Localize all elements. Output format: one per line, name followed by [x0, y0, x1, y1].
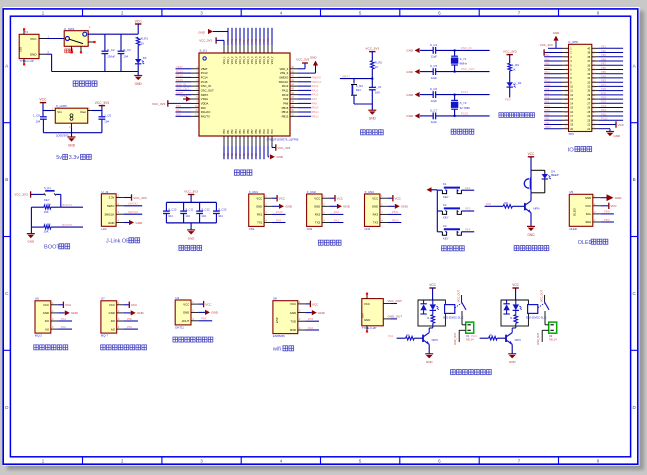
capacitor S_C4: [420, 43, 490, 59]
caption alarm circuit: [514, 246, 549, 251]
resistor (relay 1 series): [427, 310, 434, 326]
capacitor S_C5: [420, 64, 490, 80]
svg-text:PA5: PA5: [545, 91, 550, 95]
svg-text:PC12: PC12: [601, 117, 608, 121]
svg-text:SWDIO: SWDIO: [279, 76, 288, 80]
node PC14: [461, 90, 469, 94]
ground (relay 1): [425, 344, 433, 364]
wire bottom rail + reg GND pin: [43, 123, 102, 133]
svg-text:OLED: OLED: [573, 208, 577, 216]
connector J1 J-Link: [101, 190, 116, 231]
svg-text:NPN: NPN: [432, 338, 438, 342]
capacitor C13 (filter): [213, 202, 227, 223]
svg-text:PE1: PE1: [601, 45, 606, 49]
svg-text:CN2: CN2: [307, 227, 313, 231]
power flag VCC_3V3 (out): [95, 101, 109, 111]
svg-text:dOUT: dOUT: [182, 319, 190, 323]
power flag VCC (relay 2): [512, 283, 519, 300]
ground (crystal row 1): [406, 48, 419, 53]
svg-text:SDA: SDA: [585, 220, 591, 224]
svg-text:PB5: PB5: [243, 129, 246, 134]
svg-text:RX1: RX1: [257, 213, 263, 217]
IO header left pin 9: [544, 79, 572, 85]
svg-text:PB1: PB1: [127, 325, 133, 329]
svg-text:GND: GND: [553, 31, 559, 35]
svg-text:X2: X2: [549, 334, 553, 338]
svg-text:U5: U5: [569, 190, 573, 194]
svg-text:PC4: PC4: [238, 152, 242, 158]
svg-text:VCC: VCC: [43, 303, 49, 307]
transistor Q2 NPN: [506, 326, 521, 344]
svg-text:REL04: REL04: [466, 339, 474, 342]
svg-text:100uF: 100uF: [107, 55, 115, 59]
svg-text:VDDA: VDDA: [201, 102, 209, 106]
relay coil box (K2): [526, 305, 547, 320]
svg-text:PE10: PE10: [266, 37, 270, 44]
svg-text:PD3: PD3: [267, 129, 270, 134]
svg-text:PB4: PB4: [601, 74, 606, 78]
power flag VCC_3V3 (MCU bottom): [272, 144, 291, 150]
svg-text:PB15: PB15: [282, 106, 289, 110]
wifi pin2 GND: [298, 309, 326, 316]
J-Link pin 1 VCC_3V3: [116, 194, 147, 201]
ground (keys): [427, 187, 438, 192]
svg-text:VCC_3V3: VCC_3V3: [133, 196, 147, 200]
svg-text:VCC: VCC: [372, 196, 378, 200]
svg-text:Link: Link: [101, 227, 107, 231]
svg-text:12pF: 12pF: [431, 55, 438, 59]
caption CO detect module: [101, 345, 147, 350]
svg-text:GND: GND: [401, 205, 409, 209]
switch K3 (reset key): [351, 79, 363, 104]
IO header right pin 30: [587, 87, 623, 93]
svg-text:VCC: VCC: [290, 302, 296, 306]
svg-text:GND: GND: [180, 94, 186, 98]
switch K_SW1: [64, 25, 95, 53]
resistor R6 (alarm base): [485, 201, 525, 208]
svg-text:12pF: 12pF: [431, 120, 438, 124]
caption dianyuan dianlu: [73, 81, 97, 86]
IO header left pin 12: [544, 91, 573, 97]
svg-text:VDD_1: VDD_1: [223, 56, 226, 64]
buzzer D4 BEEP frame: [531, 170, 545, 193]
svg-text:VCC_3V3: VCC_3V3: [199, 39, 212, 43]
svg-text:GND: GND: [136, 221, 144, 225]
svg-text:VCC_3V3: VCC_3V3: [277, 146, 290, 150]
svg-text:PB7: PB7: [251, 129, 254, 134]
svg-text:PB4: PB4: [239, 129, 242, 134]
bottom ground rail: [52, 71, 139, 73]
MCU right pin 3 SWCLK: [279, 79, 322, 84]
svg-text:J-Link OB: J-Link OB: [106, 239, 130, 245]
svg-text:PA4: PA4: [471, 334, 477, 338]
U4 pin2 GND: [191, 308, 219, 315]
switch K3: [437, 224, 461, 241]
svg-text:GND: GND: [211, 311, 219, 315]
CN3 pin2 GND: [380, 202, 409, 209]
svg-text:S_C13: S_C13: [218, 207, 227, 211]
svg-text:NPN: NPN: [533, 206, 539, 210]
wire switch to VCC rail: [88, 33, 138, 35]
svg-text:VSS_2: VSS_2: [235, 56, 238, 64]
ground (filter): [187, 223, 195, 241]
svg-text:PC5: PC5: [545, 108, 551, 112]
capacitor S_C6: [420, 87, 490, 103]
wire to Vin: [43, 106, 55, 110]
node OSC_IN: [461, 46, 472, 50]
power flag VCC (relay 1): [429, 283, 436, 300]
svg-text:1K: 1K: [512, 67, 516, 71]
node OSC_OUT: [461, 67, 475, 71]
svg-text:PE0: PE0: [226, 38, 230, 43]
svg-text:GND: GND: [43, 311, 49, 315]
OLED pin2 VCC: [593, 202, 618, 209]
svg-text:PA2: PA2: [176, 113, 181, 117]
svg-text:PE7: PE7: [254, 38, 258, 43]
svg-text:PE6: PE6: [545, 62, 550, 66]
svg-text:PC14: PC14: [461, 90, 469, 94]
svg-text:OSC_IN: OSC_IN: [201, 84, 211, 88]
svg-text:CN3: CN3: [365, 227, 371, 231]
IO header right pin 34: [587, 70, 623, 76]
svg-text:VSS_3: VSS_3: [243, 56, 246, 64]
svg-text:PC13: PC13: [176, 69, 183, 73]
svg-text:VDD_2: VDD_2: [231, 56, 234, 64]
svg-text:DHT11: DHT11: [175, 325, 184, 329]
caption key circuit: [442, 246, 465, 251]
IO header left pin 5: [544, 62, 572, 68]
svg-text:VDD_4: VDD_4: [247, 56, 250, 64]
svg-text:PE4: PE4: [545, 53, 550, 57]
svg-text:U6: U6: [35, 297, 39, 301]
svg-text:8MHz: 8MHz: [460, 62, 468, 66]
svg-text:PA2: PA2: [334, 218, 340, 222]
svg-text:VBAT: VBAT: [545, 125, 552, 129]
svg-text:1_C1: 1_C1: [375, 85, 382, 89]
svg-text:VCC: VCC: [528, 152, 535, 156]
IO header left pin 15: [544, 104, 573, 110]
svg-text:VSS_6: VSS_6: [267, 56, 270, 64]
svg-text:SRD-05VDC-SL-C: SRD-05VDC-SL-C: [526, 316, 547, 319]
svg-text:PE1: PE1: [230, 38, 234, 43]
IO header right pin 38: [587, 53, 623, 59]
svg-text:PC0: PC0: [545, 66, 551, 70]
ground (crystal row 4): [406, 113, 419, 118]
svg-text:PE2: PE2: [234, 38, 238, 43]
svg-text:GND: GND: [314, 205, 320, 209]
svg-text:MQ-2: MQ-2: [35, 334, 42, 338]
svg-text:OLED: OLED: [569, 227, 577, 231]
MCU left pin 12 PA2/TX: [176, 113, 211, 119]
svg-text:VCC: VCC: [131, 303, 138, 307]
svg-text:VCC: VCC: [314, 196, 320, 200]
svg-text:X_CN3: X_CN3: [365, 190, 375, 194]
IO header right pin 36: [587, 62, 623, 68]
svg-text:ESP: ESP: [275, 317, 279, 323]
IO header right pin 21: [587, 128, 598, 131]
svg-text:GND: GND: [27, 240, 35, 244]
svg-text:IO: IO: [568, 147, 575, 153]
svg-text:S_C7: S_C7: [430, 109, 437, 113]
svg-text:PA0: PA0: [176, 104, 181, 108]
node PC15: [461, 111, 469, 115]
IO header left pin 16: [544, 108, 573, 114]
U7 pin1 VCC: [117, 301, 138, 308]
CN3 pin3 PB11: [380, 210, 401, 214]
svg-text:PC14: PC14: [201, 76, 208, 80]
IO header left pin 20: [544, 125, 573, 131]
svg-text:PA0: PA0: [201, 106, 206, 110]
svg-text:GND: GND: [545, 83, 551, 87]
transistor Q1 NPN (alarm): [525, 193, 540, 213]
svg-text:VCC_OUT: VCC_OUT: [458, 290, 461, 302]
svg-text:VCC: VCC: [39, 98, 47, 102]
svg-text:GND: GND: [406, 49, 414, 53]
regulator U2 LD05: [55, 104, 87, 137]
svg-text:GND: GND: [108, 221, 114, 225]
CN2 pin3 PA3: [322, 210, 343, 214]
wire key PE3: [461, 207, 474, 211]
MCU bottom pins: [222, 129, 274, 160]
svg-text:GND: GND: [343, 205, 351, 209]
svg-text:104: 104: [36, 120, 41, 124]
svg-text:PA6: PA6: [545, 96, 550, 100]
LED (relay 1): [430, 300, 439, 310]
ground (reset): [368, 104, 376, 120]
IO header right pin 26: [587, 104, 623, 110]
IO header right pin 33: [587, 74, 623, 80]
svg-text:R_C2: R_C2: [107, 48, 115, 52]
svg-text:GND: GND: [369, 116, 377, 120]
IO header right pin 23: [587, 117, 623, 123]
wire key PE2: [461, 186, 474, 190]
connector CN2 serial: [307, 190, 322, 231]
LED D2: [505, 81, 522, 102]
svg-text:SWCLK: SWCLK: [104, 212, 114, 216]
power flag VCC (alarm): [528, 152, 535, 170]
IO header right pin 27: [587, 100, 623, 106]
caption 5v to 3.3v circuit: [56, 154, 91, 161]
svg-text:GND: GND: [256, 205, 262, 209]
svg-text:SWIO: SWIO: [107, 204, 115, 208]
svg-text:RX3: RX3: [373, 213, 379, 217]
svg-text:PD3: PD3: [601, 100, 607, 104]
svg-text:VSS_4: VSS_4: [251, 56, 254, 64]
svg-text:ESP8266: ESP8266: [273, 334, 285, 338]
wire key rail: [436, 190, 438, 232]
svg-text:VCC: VCC: [109, 303, 115, 307]
svg-text:PA1: PA1: [388, 334, 394, 338]
ground (MCU bottom): [268, 146, 283, 159]
svg-text:K1: K1: [443, 182, 447, 186]
svg-text:PB1: PB1: [545, 117, 550, 121]
connector T1: [19, 28, 39, 65]
LED (relay 2): [513, 300, 522, 310]
svg-text:PB8: PB8: [255, 129, 258, 134]
buzzer element: [524, 178, 530, 190]
MCU left pin 8 VSSA: [191, 96, 208, 101]
caption wifi module: [272, 346, 294, 353]
svg-text:104: 104: [104, 120, 109, 124]
capacitor C1: [369, 79, 382, 104]
switch K2: [437, 203, 461, 220]
power flag VCC: [135, 19, 143, 34]
svg-text:PE4: PE4: [242, 38, 246, 43]
resistor R9: [508, 63, 519, 83]
svg-text:PB3: PB3: [235, 129, 238, 134]
OLED pin1 GND: [593, 194, 623, 201]
svg-text:VDD_7: VDD_7: [271, 56, 274, 64]
svg-text:VCC_3V3: VCC_3V3: [540, 43, 553, 47]
IO header left pin 3: [544, 53, 572, 59]
svg-text:PB14: PB14: [312, 110, 319, 114]
svg-text:PA2/TX: PA2/TX: [201, 114, 210, 118]
svg-text:R6: R6: [504, 201, 508, 205]
svg-text:PA11: PA11: [312, 88, 319, 92]
svg-text:PA1/AO: PA1/AO: [201, 110, 211, 114]
IO header right pin 31: [587, 83, 623, 89]
svg-text:12pF: 12pF: [431, 99, 438, 103]
svg-text:BEEP: BEEP: [551, 173, 559, 177]
IO header right pin 40: [587, 45, 623, 51]
connector U6 MQ-2: [35, 297, 51, 338]
svg-text:VSSA: VSSA: [201, 97, 208, 101]
svg-text:PA5: PA5: [486, 202, 492, 206]
svg-text:KEY: KEY: [356, 88, 362, 92]
svg-text:PC1: PC1: [226, 152, 230, 158]
IO header right pin 25: [587, 108, 623, 114]
svg-text:PB6: PB6: [601, 66, 606, 70]
svg-text:BOOT0: BOOT0: [62, 223, 72, 227]
svg-text:GND_OUT: GND_OUT: [388, 315, 403, 319]
MCU right pin 7 PA9: [283, 96, 317, 101]
svg-text:S_C5: S_C5: [430, 64, 437, 68]
svg-text:PB9: PB9: [604, 218, 610, 222]
OLED pin4 SDA: [593, 218, 614, 222]
svg-text:TXD: TXD: [290, 319, 296, 323]
svg-text:S_C10: S_C10: [168, 207, 177, 211]
MCU right pin 1 VSS_3: [280, 70, 298, 75]
J-Link pin 3 SWCLK: [116, 210, 142, 214]
svg-text:TX2: TX2: [315, 221, 321, 225]
svg-text:OSC_IN: OSC_IN: [461, 46, 472, 50]
IO header right pin 24: [587, 112, 623, 118]
U6 pin3 PA4: [51, 317, 72, 321]
svg-text:K3: K3: [443, 224, 447, 228]
svg-text:PA10: PA10: [282, 93, 289, 97]
resistor R2: [371, 60, 383, 78]
svg-text:U_J1: U_J1: [101, 190, 108, 194]
svg-text:RXD: RXD: [290, 328, 296, 332]
svg-text:104: 104: [218, 214, 223, 218]
caption crystal circuit: [451, 129, 474, 134]
MCU left pin 3 PC14: [176, 74, 209, 80]
IO header left pin 18: [544, 117, 573, 123]
svg-text:OLED: OLED: [578, 240, 593, 246]
caption OLED display: [578, 239, 608, 246]
svg-text:3.3V: 3.3V: [109, 196, 115, 200]
LED inside buzzer branch: [542, 169, 559, 179]
resistor R4: [31, 202, 60, 213]
svg-text:3.3v: 3.3v: [69, 155, 80, 161]
capacitor C10 (filter): [163, 202, 177, 223]
svg-text:TYPE-C-2P: TYPE-C-2P: [19, 59, 34, 63]
resistor (relay 2 series): [510, 310, 517, 326]
svg-text:LD05/3V3: LD05/3V3: [56, 134, 69, 138]
svg-text:SWCLK: SWCLK: [279, 80, 289, 84]
IO header right pin 22: [587, 124, 598, 127]
svg-text:PE0: PE0: [601, 49, 606, 53]
OLED pin3 SCL: [593, 210, 614, 214]
svg-text:Vout: Vout: [80, 110, 86, 114]
svg-text:TX3: TX3: [373, 221, 379, 225]
svg-text:GND: GND: [372, 205, 378, 209]
caption relay control circuit: [451, 370, 492, 375]
svg-text:VDD_6: VDD_6: [263, 56, 266, 64]
U6 pin2 GND: [51, 309, 79, 316]
svg-text:PE3: PE3: [238, 38, 242, 43]
svg-text:PE4: PE4: [465, 227, 471, 231]
svg-text:PE8: PE8: [258, 38, 262, 43]
U4 pin1 VCC: [191, 300, 212, 307]
MCU left pin 2 PC13: [176, 69, 209, 75]
power flag VCC_3V3 (MCU right top): [296, 58, 309, 69]
svg-text:PD4: PD4: [601, 96, 607, 100]
svg-text:BOOT1: BOOT1: [62, 203, 72, 207]
MCU right pin 9 PB15: [282, 105, 319, 110]
ground (crystal row 3): [406, 92, 419, 97]
connector CN3 serial: [365, 190, 380, 231]
switch K4 (boot key): [44, 186, 61, 202]
svg-text:PD2: PD2: [601, 104, 607, 108]
power flag VCC_3V3 (filter): [184, 190, 198, 203]
svg-text:R: R: [510, 316, 512, 320]
svg-text:PA2: PA2: [308, 326, 314, 330]
J-Link pin 4 GND: [116, 219, 143, 226]
svg-text:R_R2: R_R2: [375, 60, 383, 64]
svg-text:VSS_5: VSS_5: [259, 56, 262, 64]
svg-text:K2: K2: [443, 203, 447, 207]
svg-text:PB8: PB8: [604, 210, 610, 214]
capacitor C11 (filter): [180, 202, 194, 223]
svg-text:VBAT: VBAT: [201, 67, 208, 71]
terminal X2 (green): [537, 311, 557, 345]
U6 pin4 PA6: [51, 325, 72, 329]
svg-text:VCC_3V3: VCC_3V3: [184, 190, 198, 194]
svg-text:NRST: NRST: [342, 74, 350, 78]
crystal Y1 8MHz: [451, 49, 467, 72]
IO header right pin 37: [587, 57, 623, 63]
svg-text:PC2: PC2: [545, 74, 551, 78]
relay contact arm (K1): [455, 290, 466, 310]
svg-text:1_C8: 1_C8: [33, 114, 40, 118]
svg-text:L_D2: L_D2: [515, 81, 522, 85]
svg-text:PE3: PE3: [465, 207, 471, 211]
power flag VCC_3V3 (indicator): [503, 50, 517, 64]
svg-text:K_XP6: K_XP6: [569, 40, 579, 44]
svg-text:VCC: VCC: [429, 283, 436, 287]
svg-text:S_C4: S_C4: [430, 43, 437, 47]
svg-text:PC15: PC15: [201, 80, 208, 84]
svg-text:PC15: PC15: [461, 111, 469, 115]
IO header left pin 11: [544, 87, 573, 93]
caption reset circuit: [361, 130, 384, 135]
MCU left pin 1 VBAT: [176, 65, 208, 71]
MCU left pin 11 PA1/AO: [176, 108, 211, 114]
svg-text:X_CN2: X_CN2: [307, 190, 317, 194]
svg-text:PB0: PB0: [127, 317, 133, 321]
MCU right pin 8 PA8: [283, 101, 317, 106]
